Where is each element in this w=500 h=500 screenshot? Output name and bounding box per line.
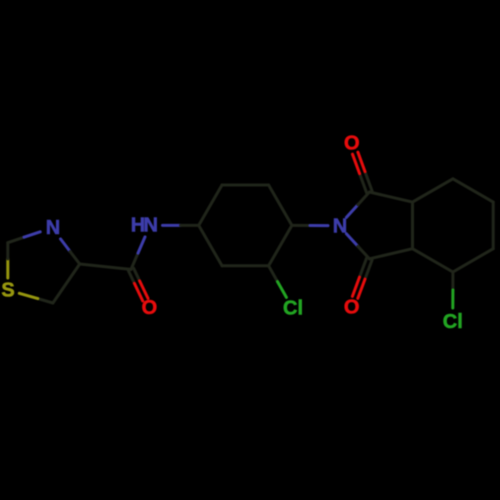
- svg-text:O: O: [142, 297, 158, 319]
- wire bond Cam-Oam: [128, 271, 134, 284]
- wire bond C6p-C5p: [222, 184, 269, 187]
- wire bond C4p-C3p: [269, 225, 292, 265]
- svg-text:N: N: [333, 215, 347, 237]
- wire bond C3i-C3a: [369, 249, 412, 259]
- wire bond C2-N3: [8, 237, 24, 243]
- wire bond C5b-C6b: [492, 202, 495, 249]
- svg-text:O: O: [344, 297, 360, 319]
- wire bond Cam-Nam: [131, 253, 138, 269]
- svg-text:O: O: [344, 132, 360, 154]
- wire bond C3p-Clb: [269, 266, 278, 282]
- wire bond C4-Cam: [80, 264, 131, 269]
- wire bond C3p-C2p: [222, 264, 269, 267]
- wire bond S1-C2: [6, 259, 9, 278]
- wire bond Nim-C3i: [346, 234, 358, 247]
- wire bond C4b-C5b: [453, 249, 493, 272]
- wire bond C4-C5: [53, 264, 80, 303]
- wire bond C5p-C4p: [269, 185, 292, 225]
- wire bond C1p-C6p: [199, 185, 222, 225]
- svg-text:N: N: [46, 217, 60, 239]
- wire bond C2p-C1p: [199, 225, 222, 265]
- wire bond C3i-Obo: [360, 258, 367, 277]
- svg-text:N: N: [143, 215, 157, 237]
- wire bond C4p-Nim: [292, 224, 310, 227]
- wire bond C7a-C3a: [411, 202, 414, 249]
- wire bond C5-S1: [38, 299, 53, 303]
- wire bond C7b-C7a: [413, 179, 453, 202]
- wire bond C1i-Oto: [365, 172, 372, 191]
- svg-text:Cl: Cl: [283, 297, 303, 319]
- wire bond Nam-C1p: [163, 224, 181, 227]
- wire bond N3-C4: [61, 239, 71, 252]
- svg-text:S: S: [1, 279, 14, 301]
- wire bond Nim-C1i: [346, 205, 358, 218]
- wire bond C3a-C4b: [413, 249, 453, 272]
- wire bond C1i-C7a: [369, 192, 412, 202]
- svg-text:Cl: Cl: [443, 311, 463, 333]
- wire bond C4b-Clr: [451, 272, 454, 290]
- wire bond C6b-C7b: [453, 179, 493, 202]
